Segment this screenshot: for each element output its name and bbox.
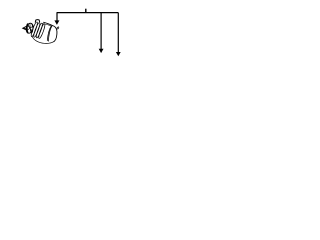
part: left pointed tab [23, 26, 28, 31]
part: body upper seam line [43, 24, 52, 27]
part: body top edge [43, 22, 54, 26]
label 1 tick [85, 9, 87, 13]
right callout wire [117, 13, 119, 53]
part: cap rim second curve [32, 24, 33, 33]
part: right stud [57, 27, 59, 30]
left callout arrowhead [54, 20, 59, 25]
part: ribbed collar bands [30, 21, 46, 38]
left callout wire [56, 13, 58, 21]
middle callout arrowhead [99, 49, 104, 53]
part: bottom silhouette swoosh [32, 37, 53, 44]
right callout arrowhead [116, 52, 121, 56]
middle callout wire [100, 13, 102, 50]
part: top nub [35, 20, 40, 23]
callout horizontal wire [57, 12, 119, 14]
part: right end cap [53, 26, 57, 42]
part: seam double curves [48, 26, 52, 42]
part: left knurled cap [25, 22, 34, 34]
